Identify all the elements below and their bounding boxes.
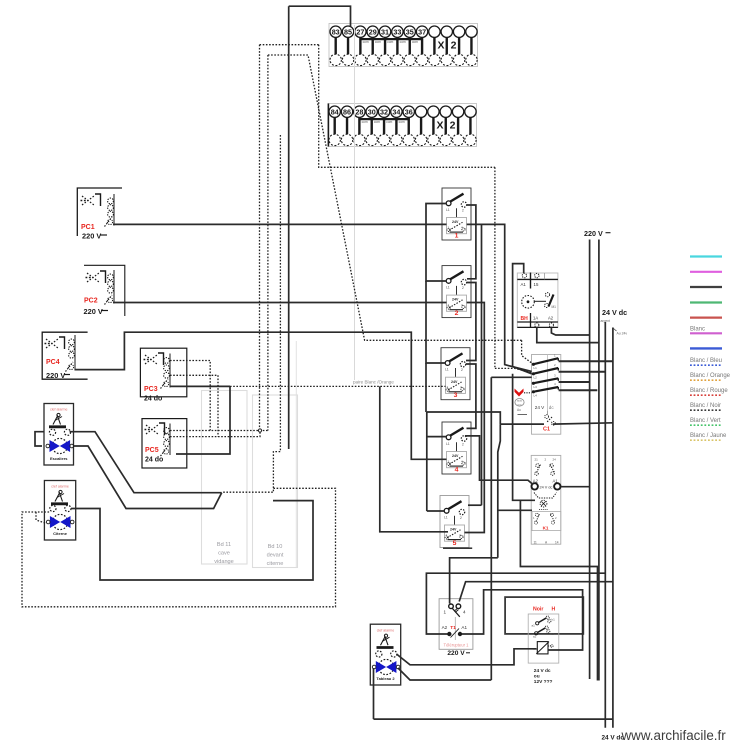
- wire: switch pivots left bus: [426, 204, 446, 282]
- wire: K1 sub feed stub: [498, 509, 532, 511]
- wire pair drop to switch 5: [380, 386, 448, 531]
- dashed branch to citerne loop: [22, 488, 336, 607]
- dashed paire Blanc/Orange to switch 3: [230, 385, 446, 387]
- wire: Citerne to loop: [71, 501, 313, 580]
- svg-text:com: com: [374, 120, 380, 124]
- svg-text:27: 27: [356, 27, 364, 36]
- svg-text:2: 2: [460, 516, 462, 520]
- wire: Escaliers left loop: [35, 432, 44, 446]
- svg-text:Bd 10: Bd 10: [268, 544, 283, 550]
- dashed pair: outer loop: [260, 44, 319, 46]
- svg-text:1: 1: [447, 385, 449, 389]
- junction dot: [258, 429, 261, 432]
- wire PC2 to switch 2: [113, 302, 447, 304]
- wire: C1 aux out: [553, 423, 613, 424]
- dashed PC3 pair: [170, 361, 210, 431]
- svg-text:86: 86: [343, 107, 351, 116]
- wire: chain switch2 to switch3: [466, 283, 476, 361]
- svg-text:a2: a2: [533, 635, 537, 639]
- label 24 V dc (right): [602, 308, 627, 317]
- svg-text:Blanc / Noir: Blanc / Noir: [690, 403, 721, 409]
- dashed citerne lamp stub: [36, 512, 47, 524]
- wire: pivot bus lower part: [425, 363, 427, 412]
- wire: C1 pole4 out: [559, 389, 598, 391]
- multi-pole switch C1: [532, 353, 561, 434]
- legend Blanc / Rouge: [690, 388, 728, 395]
- svg-text:1A: 1A: [533, 316, 538, 321]
- wire: Tableau2 lamp out: [398, 668, 491, 680]
- wire: switch5 right stub: [468, 504, 482, 506]
- svg-text:5: 5: [453, 540, 457, 547]
- legend Blanc / Bleu: [690, 358, 722, 365]
- svg-text:L1: L1: [444, 515, 448, 519]
- svg-text:1: 1: [448, 460, 450, 464]
- svg-text:clef alarme: clef alarme: [51, 485, 69, 489]
- svg-text:paire Blanc /Orange: paire Blanc /Orange: [353, 380, 394, 385]
- svg-text:2: 2: [545, 457, 547, 461]
- svg-text:24 V: 24 V: [535, 405, 545, 410]
- svg-text:Bd 11: Bd 11: [217, 542, 231, 548]
- svg-text:PC4: PC4: [46, 359, 60, 366]
- svg-text:com: com: [375, 40, 381, 44]
- svg-text:11: 11: [534, 541, 538, 545]
- wire: 24V rail C: [604, 322, 606, 728]
- svg-text:cave: cave: [218, 551, 230, 557]
- svg-text:H: H: [552, 607, 556, 613]
- wire: long centre vertical drop: [288, 6, 290, 449]
- svg-text:2: 2: [461, 368, 463, 372]
- relay module Noir H: [528, 607, 559, 686]
- dashed PC5 pair: [170, 430, 268, 432]
- svg-text:T1: T1: [450, 625, 456, 631]
- svg-text:85: 85: [344, 27, 352, 36]
- svg-text:220 V: 220 V: [82, 232, 101, 241]
- svg-text:b2: b2: [551, 632, 555, 636]
- C1 red arrow marker: [515, 389, 532, 397]
- dashed jog wire: [223, 135, 281, 492]
- terminal block X1 (top): [329, 24, 478, 67]
- telerupteur T1: [439, 599, 473, 658]
- svg-text:3: 3: [554, 374, 556, 378]
- svg-text:24V: 24V: [452, 220, 459, 224]
- dashed drop to C1 pole1: [522, 340, 532, 363]
- svg-text:2: 2: [555, 516, 557, 520]
- svg-text:clef alarme: clef alarme: [377, 628, 395, 632]
- svg-text:A1: A1: [521, 282, 527, 287]
- svg-text:com: com: [362, 120, 368, 124]
- svg-text:K1: K1: [543, 525, 549, 530]
- svg-text:1: 1: [446, 533, 448, 537]
- wire: switch3 left vertical: [426, 412, 428, 511]
- wire: tap to switch5 pivot: [427, 510, 444, 512]
- svg-text:PC3: PC3: [144, 386, 158, 393]
- svg-text:a1: a1: [532, 624, 536, 628]
- svg-text:L1: L1: [446, 285, 450, 289]
- wire: telerupteur 4 feed to rail D: [459, 582, 613, 602]
- svg-text:L3: L3: [534, 385, 538, 389]
- wire: Escaliers U-turn: [74, 446, 222, 509]
- svg-text:220 V: 220 V: [46, 371, 65, 380]
- wire: switch1 out drop to switch5: [467, 224, 482, 505]
- svg-text:L1: L1: [534, 366, 538, 370]
- svg-text:BH: BH: [521, 316, 529, 322]
- svg-text:30: 30: [368, 107, 376, 116]
- svg-text:220 V: 220 V: [447, 650, 465, 657]
- wire PC4 to switch 4: [75, 332, 447, 459]
- svg-text:24: 24: [553, 457, 557, 461]
- svg-text:PC1: PC1: [81, 224, 95, 231]
- relay K1: [531, 455, 561, 544]
- faint guide line: [295, 341, 297, 568]
- wire: K1 sub feed from C1 aux: [498, 424, 501, 558]
- wire: BH feed: [513, 264, 524, 367]
- svg-text:C1: C1: [543, 427, 550, 433]
- faint guide line: [354, 25, 356, 380]
- dashed pair left conductors drop: [259, 45, 261, 431]
- svg-text:A1: A1: [461, 625, 467, 630]
- wire: C1 pole2 out: [559, 371, 606, 373]
- svg-text:2: 2: [450, 120, 456, 132]
- svg-text:36: 36: [405, 107, 413, 116]
- svg-text:24 do: 24 do: [145, 457, 163, 464]
- svg-text:com: com: [363, 40, 369, 44]
- svg-text:Télérupteur 1: Télérupteur 1: [444, 642, 470, 647]
- svg-text:24 V dc: 24 V dc: [540, 485, 553, 489]
- wire: bottom long bus: [374, 718, 613, 720]
- alarm key box Tableau 2: [370, 624, 400, 685]
- terminal block X2 (bottom): [328, 104, 477, 147]
- svg-text:L1: L1: [445, 368, 449, 372]
- svg-text:2: 2: [462, 443, 464, 447]
- zone Bd 11 cave vidange: [202, 391, 248, 566]
- svg-text:L1: L1: [446, 442, 450, 446]
- wire PC3-PC5 link: [176, 386, 230, 454]
- wire: Escaliers right loop out: [70, 432, 222, 493]
- wire: NoirH coil left feed from Tableau2: [397, 649, 537, 665]
- svg-text:24V: 24V: [450, 528, 457, 532]
- svg-text:PC5: PC5: [145, 447, 159, 454]
- label 220 V ~ (top right): [584, 229, 611, 238]
- svg-text:32: 32: [380, 107, 388, 116]
- wire PC3 junction: [170, 385, 230, 387]
- svg-text:2: 2: [451, 40, 457, 52]
- wire: BH out 1A: [551, 327, 589, 335]
- svg-text:35: 35: [406, 27, 414, 36]
- legend Blanc: [690, 327, 722, 334]
- svg-text:28: 28: [355, 107, 363, 116]
- svg-text:dc: dc: [549, 405, 555, 410]
- socket outlet PC3: [140, 348, 186, 402]
- light switch 4: [442, 422, 471, 474]
- wire: 491 vertical: [490, 377, 492, 680]
- svg-text:ou: ou: [534, 675, 540, 680]
- svg-text:2: 2: [462, 286, 464, 290]
- svg-text:2: 2: [455, 310, 459, 317]
- svg-text:A2: A2: [442, 625, 448, 630]
- svg-text:220 V: 220 V: [84, 307, 103, 316]
- svg-text:X: X: [437, 40, 444, 52]
- wire: 24V rail D: [612, 328, 614, 728]
- relay BH: [517, 273, 558, 328]
- svg-text:Au 24v: Au 24v: [617, 332, 628, 336]
- wire: 220V rail B: [598, 240, 600, 681]
- wire PC1 to switch 1: [113, 223, 447, 225]
- wire: drop to W-C: [520, 500, 597, 680]
- svg-text:com: com: [412, 40, 418, 44]
- svg-text:auto: auto: [517, 399, 523, 403]
- wire: telerupteur 1 feed: [450, 558, 498, 604]
- svg-text:com: com: [387, 40, 393, 44]
- svg-text:Blanc / Bleu: Blanc / Bleu: [690, 358, 722, 364]
- svg-text:24 do: 24 do: [144, 396, 162, 403]
- zone Bd 10 devant citerne: [253, 395, 298, 568]
- socket outlet PC5: [142, 419, 187, 468]
- wire: Tableau2 left drop: [373, 668, 375, 719]
- svg-text:www.archifacile.fr: www.archifacile.fr: [621, 728, 727, 743]
- svg-text:21: 21: [535, 457, 539, 461]
- svg-text:com: com: [400, 40, 406, 44]
- svg-text:Tableau 2: Tableau 2: [376, 676, 395, 681]
- alarm key box Citerne: [44, 481, 75, 541]
- svg-text:PC2: PC2: [84, 298, 98, 305]
- svg-text:com: com: [386, 120, 392, 124]
- legend Blanc / Noir: [690, 403, 722, 410]
- alarm key box Escaliers: [44, 404, 74, 466]
- svg-text:29: 29: [369, 27, 377, 36]
- wire: K1 A1 to rail: [561, 486, 590, 488]
- svg-text:24V: 24V: [451, 380, 458, 384]
- wire: 220V rail A: [589, 240, 591, 680]
- legend Bleu solid: [690, 347, 722, 349]
- svg-text:L2: L2: [534, 375, 538, 379]
- legend Blanc / Vert: [690, 418, 722, 425]
- svg-text:24 V dc: 24 V dc: [602, 308, 627, 317]
- svg-text:2: 2: [554, 363, 556, 367]
- svg-text:citerne: citerne: [267, 561, 284, 567]
- svg-text:1: 1: [533, 516, 535, 520]
- svg-text:1: 1: [554, 353, 556, 357]
- svg-text:4: 4: [461, 303, 463, 307]
- svg-text:b1: b1: [552, 618, 556, 622]
- svg-text:1: 1: [455, 232, 459, 239]
- svg-text:Blanc / Vert: Blanc / Vert: [690, 418, 721, 424]
- wire: chain switch1 to switch2: [467, 205, 476, 279]
- wire: BH out A2: [537, 327, 599, 342]
- wire: tap to switch4 pivot: [427, 436, 446, 438]
- light switch 5: [440, 496, 469, 548]
- svg-text:Escaliers: Escaliers: [50, 456, 68, 461]
- svg-text:vidange: vidange: [214, 559, 234, 565]
- svg-text:4: 4: [461, 226, 463, 230]
- svg-text:Blanc / Rouge: Blanc / Rouge: [690, 388, 728, 394]
- wire: BH drop to K1 coil: [513, 374, 535, 501]
- svg-text:1: 1: [448, 303, 450, 307]
- switch 5 bottom edge: [443, 547, 472, 549]
- svg-text:com: com: [399, 120, 405, 124]
- wire: C1 pole1 out: [559, 360, 613, 362]
- relay module Noir H outer loop: [505, 597, 583, 634]
- wire: chain switch3 to switch4: [466, 364, 476, 428]
- svg-text:15: 15: [534, 282, 539, 287]
- svg-text:4: 4: [455, 466, 459, 473]
- tiny label noir: [614, 329, 628, 336]
- svg-text:24V: 24V: [452, 454, 459, 458]
- svg-text:1: 1: [448, 226, 450, 230]
- svg-text:devant: devant: [267, 553, 284, 559]
- svg-text:3: 3: [454, 392, 458, 399]
- svg-text:2: 2: [462, 209, 464, 213]
- socket outlet PC1: [77, 188, 122, 241]
- wire: C1 aux in: [500, 423, 544, 425]
- wire: switch2 out drop to switch5 sub: [465, 303, 485, 533]
- svg-text:4: 4: [554, 382, 556, 386]
- svg-text:33: 33: [393, 27, 401, 36]
- svg-text:37: 37: [418, 27, 426, 36]
- wire: top feed to terminal 85: [289, 6, 351, 26]
- light switch 2: [442, 266, 471, 318]
- wire: switch1 out to C1: [482, 224, 532, 371]
- wire: C1 pole3 out: [559, 381, 590, 383]
- svg-text:83: 83: [332, 27, 340, 36]
- C1 mode ellipse: [515, 399, 527, 415]
- svg-text:4: 4: [459, 533, 461, 537]
- socket outlet PC2: [84, 265, 125, 316]
- svg-text:4: 4: [460, 385, 462, 389]
- dashed pair: inner run: [268, 55, 522, 340]
- svg-text:L4: L4: [534, 393, 538, 397]
- svg-text:A2: A2: [548, 316, 554, 321]
- svg-text:12V ???: 12V ???: [534, 679, 553, 685]
- svg-text:84: 84: [331, 107, 339, 116]
- svg-text:Au: Au: [517, 408, 521, 412]
- svg-text:man: man: [517, 403, 522, 406]
- svg-text:L1: L1: [446, 208, 450, 212]
- wire: BH feed diag to C1: [513, 367, 532, 374]
- svg-text:4: 4: [463, 610, 466, 615]
- terminal block X2 left border: [327, 104, 329, 147]
- socket outlet PC4: [42, 332, 87, 380]
- svg-text:Blanc / Orange: Blanc / Orange: [690, 373, 731, 379]
- wire: switch3 lower link: [427, 412, 501, 424]
- svg-text:14: 14: [555, 541, 559, 545]
- svg-text:Noir: Noir: [533, 607, 543, 613]
- wire: telerupteur A1 to NoirH coil: [462, 590, 583, 650]
- svg-text:220 V: 220 V: [584, 229, 603, 238]
- wire: C1 pole3 feed: [491, 376, 531, 378]
- light switch 3: [441, 348, 470, 400]
- svg-text:34: 34: [392, 107, 400, 116]
- svg-text:24 V dc: 24 V dc: [534, 668, 551, 674]
- svg-text:Blanc: Blanc: [690, 327, 705, 333]
- wire: W-A telerupteur coil A2 from rail C: [426, 573, 605, 634]
- legend Blanc / Orange: [690, 373, 731, 380]
- svg-text:Citerne: Citerne: [53, 531, 68, 536]
- dashed pair: right drop: [494, 167, 496, 368]
- svg-text:Blanc / Jaune: Blanc / Jaune: [690, 433, 727, 439]
- svg-text:31: 31: [381, 27, 389, 36]
- svg-text:1: 1: [444, 610, 447, 615]
- legend solid colour lines: [690, 257, 722, 318]
- legend Blanc / Jaune: [690, 433, 727, 440]
- svg-text:M1: M1: [552, 305, 557, 309]
- svg-text:clef alarme: clef alarme: [50, 408, 68, 412]
- svg-text:4: 4: [461, 460, 463, 464]
- dashed to C1 pole2: [495, 368, 532, 372]
- light switch 1: [442, 188, 471, 240]
- svg-text:24V: 24V: [452, 298, 459, 302]
- wire: switch4 out to relay K1 A2: [465, 436, 533, 485]
- svg-text:X: X: [436, 120, 443, 132]
